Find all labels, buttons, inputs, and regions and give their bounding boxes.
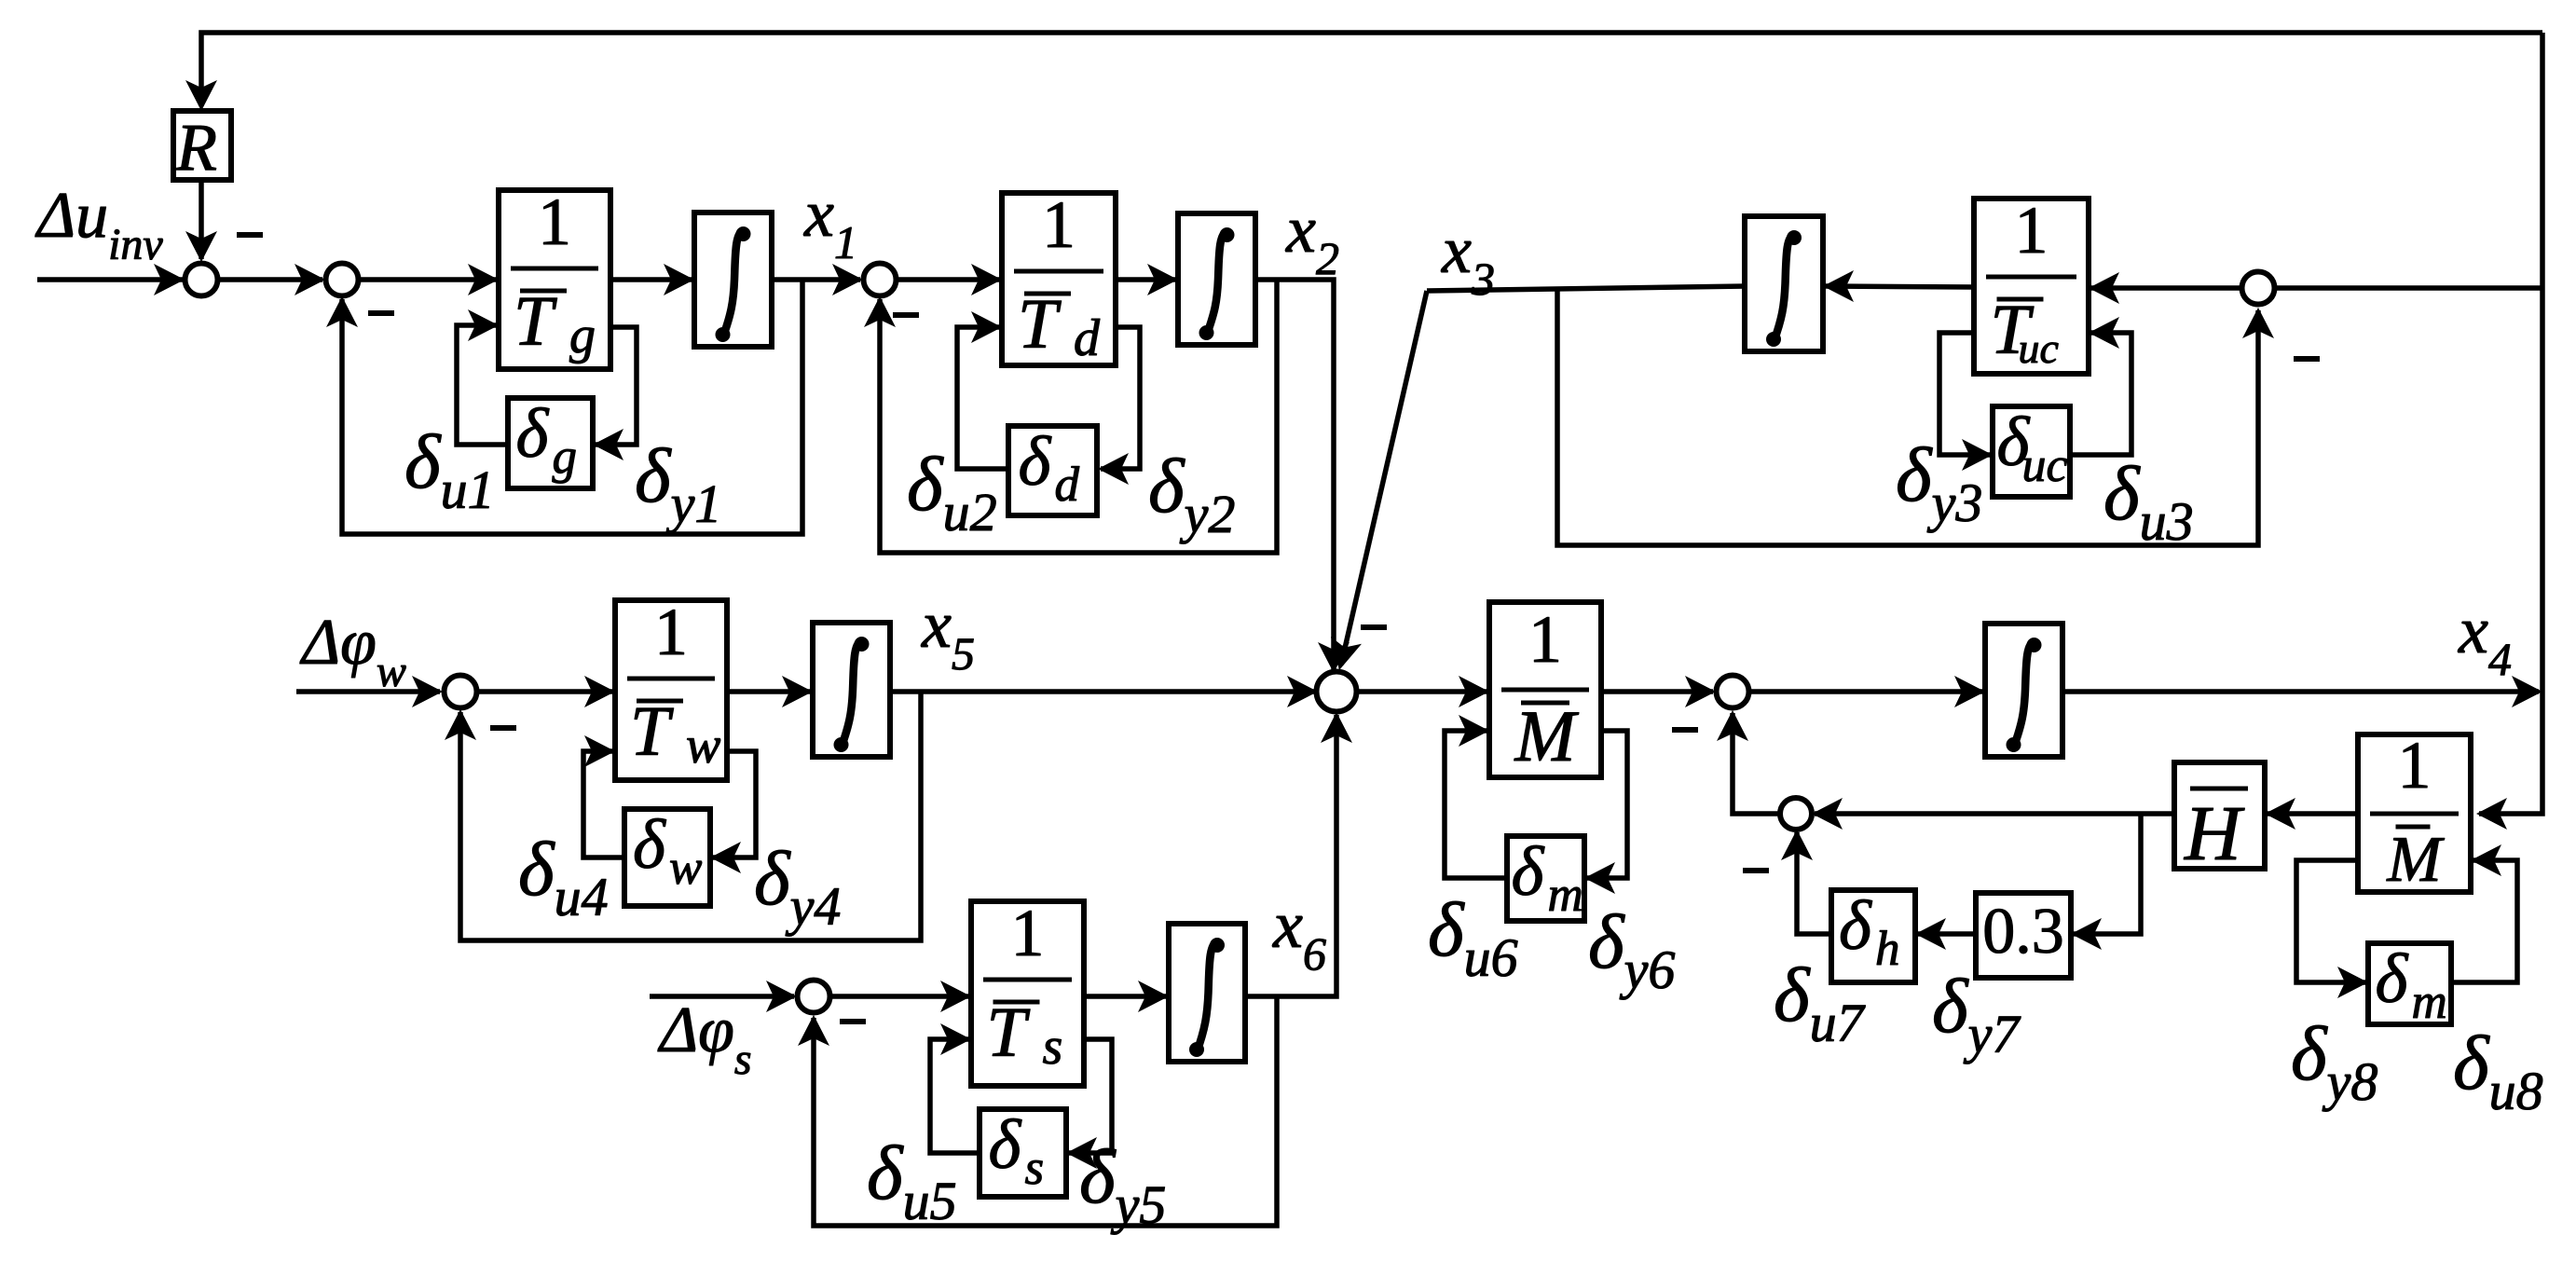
svg-text:1: 1 xyxy=(1528,602,1562,677)
svg-text:uc: uc xyxy=(2019,324,2059,372)
svg-text:h: h xyxy=(1875,922,1900,976)
wire S1 to S2 xyxy=(218,264,325,295)
svg-text:H: H xyxy=(2184,790,2245,877)
label delta-u6 xyxy=(1428,886,1518,988)
label minus at S7 xyxy=(1672,727,1698,733)
label x1 xyxy=(803,176,857,268)
svg-text:δ: δ xyxy=(1839,887,1872,965)
wire branch to 0.3 xyxy=(2071,814,2141,950)
wire M2 to H xyxy=(2265,798,2358,830)
label minus at S9 xyxy=(840,1019,866,1024)
block H-bar xyxy=(2174,762,2265,877)
wire delta-m8 return to M2 xyxy=(2451,844,2517,982)
block delta-d xyxy=(1008,423,1097,515)
block integrator I4 xyxy=(813,623,890,757)
wire S4 to Tuc xyxy=(2089,272,2241,304)
block 1/Ts xyxy=(971,896,1084,1086)
block 1/M first xyxy=(1489,602,1601,777)
label x4 xyxy=(2458,593,2512,685)
svg-text:s: s xyxy=(1025,1141,1045,1195)
svg-text:T: T xyxy=(630,693,674,771)
label delta-u4 xyxy=(518,826,609,927)
wire delta-s return to Ts xyxy=(930,1023,980,1153)
svg-text:d: d xyxy=(1055,458,1080,512)
label delta-u1 xyxy=(404,418,495,520)
label Delta-u_inv xyxy=(34,180,163,269)
wire S8 up to S7 xyxy=(1717,710,1780,814)
label delta-y3 xyxy=(1896,432,1982,533)
block integrator I2 xyxy=(1178,213,1255,345)
label Delta-phi-s xyxy=(657,995,752,1084)
wire S6 to M1 xyxy=(1355,676,1489,707)
wire S5 to Tw xyxy=(478,676,615,707)
wire delta-m6 return to M1 xyxy=(1445,715,1507,878)
label delta-y2 xyxy=(1148,443,1235,544)
wire input Delta-phi-s xyxy=(650,981,797,1012)
block 1/M second xyxy=(2358,728,2471,896)
block 1/Tg xyxy=(499,185,610,369)
label x2 xyxy=(1285,192,1339,284)
block delta-m second xyxy=(2368,940,2451,1029)
wire S3 to Td xyxy=(897,264,1002,295)
wire Tuc tap to delta-uc xyxy=(1939,333,1993,471)
wire x3 diagonal to central sum xyxy=(1331,291,1427,670)
wire delta-d return to Td xyxy=(957,311,1008,469)
svg-text:1: 1 xyxy=(1011,896,1045,970)
block delta-h xyxy=(1831,887,1915,982)
wire delta-h to S8 xyxy=(1781,830,1831,934)
svg-text:1: 1 xyxy=(538,185,571,259)
wire Tuc to I3 xyxy=(1823,270,1974,302)
wire delta-uc return to Tuc xyxy=(2070,317,2131,455)
block delta-m first xyxy=(1507,833,1584,922)
svg-text:δ: δ xyxy=(2376,940,2409,1018)
block integrator I1 xyxy=(694,213,772,347)
wire Td tap to delta-d xyxy=(1098,327,1140,485)
label minus at S5 xyxy=(490,725,516,731)
block 1/Td xyxy=(1002,187,1116,367)
svg-text:g: g xyxy=(553,430,578,484)
svg-text:T: T xyxy=(987,994,1031,1072)
wire x2 down to central sum xyxy=(1255,280,1350,673)
wire top feedback bus xyxy=(201,33,2542,106)
label x6 xyxy=(1272,887,1326,980)
svg-text:δ: δ xyxy=(1512,833,1545,911)
node sum junction S1 xyxy=(185,264,218,296)
wire 0.3 to delta-h xyxy=(1915,918,1976,950)
block delta-w xyxy=(624,806,710,906)
wire Tg to integrator I1 xyxy=(610,264,694,295)
node sum junction S4 xyxy=(2242,272,2275,305)
svg-text:R: R xyxy=(175,110,217,185)
wire Tw to integrator I4 xyxy=(727,676,813,707)
svg-text:M: M xyxy=(1514,695,1580,776)
svg-text:T: T xyxy=(514,282,557,361)
svg-text:δ: δ xyxy=(633,806,666,884)
node sum junction S5 xyxy=(445,676,477,708)
wire R to S1 xyxy=(185,180,217,262)
label Delta-phi-w xyxy=(299,607,406,696)
node sum junction S3 xyxy=(864,264,897,296)
block delta-uc xyxy=(1993,404,2070,497)
block gain 0.3 xyxy=(1976,893,2071,978)
wire x6 up to central sum xyxy=(1245,712,1352,996)
wire feedback block2 outer xyxy=(864,280,1277,553)
svg-text:d: d xyxy=(1074,309,1101,367)
wire S7 to integrator I5 xyxy=(1749,676,1985,707)
svg-text:0.3: 0.3 xyxy=(1982,896,2064,967)
wire M2 tap to delta-m8 xyxy=(2296,860,2368,998)
svg-text:w: w xyxy=(686,717,720,775)
label minus at central sum xyxy=(1361,624,1387,630)
wire M1 tap to delta-m6 xyxy=(1584,731,1627,894)
wire Ts tap to delta-s xyxy=(1066,1039,1112,1169)
label minus at S3 xyxy=(893,312,919,318)
wire x3 tap down xyxy=(1557,289,2274,545)
wire Tw tap to delta-w xyxy=(710,751,756,873)
wire x5 to central sum xyxy=(890,676,1318,707)
wire M1 to S7 xyxy=(1601,676,1716,707)
block 1/Tw xyxy=(615,595,727,780)
wire S9 to Ts xyxy=(830,981,971,1012)
wire delta-w return to Tw xyxy=(583,735,624,858)
label delta-u7 xyxy=(1774,952,1866,1053)
label delta-y4 xyxy=(754,835,841,937)
label x5 xyxy=(921,587,975,679)
label x3 xyxy=(1441,213,1495,305)
label delta-y8 xyxy=(2291,1010,2377,1112)
wire bus to S4 xyxy=(2275,285,2542,291)
svg-text:w: w xyxy=(669,841,702,895)
node sum junction S2 xyxy=(326,264,359,296)
svg-text:δ: δ xyxy=(516,395,550,473)
wire feedback block-s outer xyxy=(798,996,1277,1226)
wire I1 to S3 xyxy=(772,264,863,295)
wire Ts to integrator I6 xyxy=(1084,981,1169,1012)
node sum junction S9 xyxy=(798,981,830,1013)
wire input Delta-u_inv xyxy=(37,264,186,295)
label delta-u2 xyxy=(907,441,997,542)
svg-text:M: M xyxy=(2386,824,2445,896)
label delta-y6 xyxy=(1588,899,1675,1000)
block integrator I3 xyxy=(1745,216,1823,351)
svg-text:s: s xyxy=(1043,1018,1063,1076)
svg-text:δ: δ xyxy=(1019,423,1052,501)
label minus at S4 xyxy=(2294,356,2320,362)
block integrator I6 xyxy=(1169,924,1245,1062)
svg-text:1: 1 xyxy=(2015,193,2048,268)
label minus at S2 xyxy=(368,310,394,316)
wire S2 to Tg xyxy=(359,264,499,295)
node sum junction S8 xyxy=(1780,798,1812,830)
block delta-s xyxy=(980,1106,1066,1197)
wire feedback block1 outer xyxy=(326,280,802,534)
label delta-y1 xyxy=(635,432,721,534)
block 1/Tuc xyxy=(1974,193,2089,374)
block integrator I5 xyxy=(1985,624,2062,757)
wire input Delta-phi-w xyxy=(296,676,443,707)
svg-text:m: m xyxy=(1548,868,1583,922)
block R xyxy=(173,110,231,185)
label delta-u5 xyxy=(867,1130,957,1231)
wire delta-g return to Tg xyxy=(457,309,508,445)
node central sum junction S6 xyxy=(1317,672,1357,712)
wire arrow into R xyxy=(185,80,217,111)
svg-text:1: 1 xyxy=(1042,187,1076,262)
node sum junction S7 xyxy=(1717,676,1749,708)
label delta-y5 xyxy=(1079,1133,1166,1235)
wire I5 to x4 bus xyxy=(2062,676,2542,707)
wire x4 bus vertical xyxy=(2476,33,2542,830)
wire Tg tap to delta-g xyxy=(593,327,637,460)
block delta-g xyxy=(508,395,593,488)
svg-text:m: m xyxy=(2412,975,2447,1029)
label delta-u8 xyxy=(2453,1020,2543,1121)
svg-text:uc: uc xyxy=(2022,439,2068,492)
wire Td to integrator I2 xyxy=(1116,264,1178,295)
svg-text:T: T xyxy=(1018,285,1062,364)
svg-text:1: 1 xyxy=(654,595,688,669)
wire x3 horizontal xyxy=(1427,286,1747,291)
label minus at S8 xyxy=(1743,868,1769,873)
svg-text:δ: δ xyxy=(989,1106,1022,1184)
svg-text:1: 1 xyxy=(2398,728,2432,803)
wire feedback block-w outer xyxy=(445,692,921,940)
label delta-y7 xyxy=(1932,963,2021,1064)
label delta-u3 xyxy=(2103,450,2194,552)
wire H to S8 xyxy=(1812,798,2174,830)
svg-text:g: g xyxy=(569,307,596,364)
label minus at S1 xyxy=(237,232,263,238)
